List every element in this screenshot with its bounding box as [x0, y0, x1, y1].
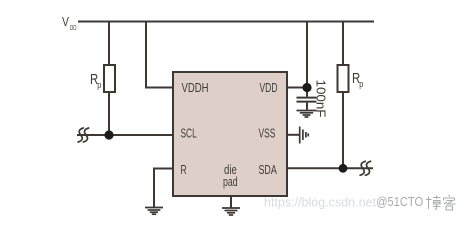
pin label SCL [181, 127, 197, 141]
svg-text:DD: DD [70, 23, 77, 32]
svg-text:100nF: 100nF [314, 80, 329, 118]
ground (die pad) [222, 208, 240, 215]
wire R pin to ground [154, 169, 173, 208]
pin label R [181, 163, 187, 177]
label die pad [223, 163, 238, 189]
wire VDD pin to decoupling node [287, 87, 307, 89]
svg-text:https://blog.csdn.net: https://blog.csdn.net [264, 195, 376, 210]
power rail VDD [78, 21, 374, 23]
junction dot SDA / Rp [339, 164, 348, 173]
junction dot VDD / C1 [302, 83, 311, 92]
wire die pad to ground [230, 196, 232, 208]
pin label VDD [260, 81, 278, 95]
junction dot SCL / Rp [104, 130, 113, 139]
label Rp (left) [90, 71, 101, 90]
wire rail to VDDH pin [146, 22, 173, 88]
label 100nF [314, 80, 329, 118]
svg-text:VDD: VDD [260, 81, 278, 95]
watermark [264, 194, 456, 211]
wire SDA net [287, 167, 373, 169]
svg-text:SCL: SCL [181, 127, 197, 141]
label Rp (right) [352, 70, 363, 89]
wire VSS pin to ground [287, 134, 300, 136]
svg-text:V: V [62, 15, 70, 29]
wire rail to right pull-up resistor [342, 22, 344, 66]
wire rail to left pull-up resistor [108, 22, 110, 66]
svg-text:R: R [181, 163, 187, 177]
break symbol SCL (left squiggle) [78, 128, 89, 142]
svg-text:VSS: VSS [259, 127, 276, 141]
wire rail to decoupling node [306, 22, 308, 94]
svg-text:SDA: SDA [259, 163, 278, 177]
wire right resistor to SDA line [342, 92, 344, 168]
break symbol SDA (right squiggle) [360, 161, 371, 175]
ground (R pin) [145, 208, 163, 215]
resistor Rp (right pull-up) [338, 65, 349, 92]
wire left resistor to SCL line [108, 92, 110, 135]
IC U1 body [173, 72, 287, 196]
pin label VDDH [182, 81, 209, 95]
ground (VSS, sideways) [300, 127, 309, 144]
resistor Rp (left pull-up) [104, 65, 115, 92]
ground (below C1) [297, 111, 317, 118]
wire SCL net [77, 134, 173, 136]
svg-text:pad: pad [223, 175, 238, 189]
pin label SDA [259, 163, 278, 177]
svg-text:VDDH: VDDH [182, 81, 209, 95]
pin label VSS [259, 127, 276, 141]
svg-text:@51CTO: @51CTO [376, 194, 423, 209]
net label VDD [62, 15, 77, 32]
svg-text:p: p [97, 80, 101, 90]
svg-text:p: p [359, 79, 363, 89]
capacitor C1 100nF [297, 92, 317, 110]
